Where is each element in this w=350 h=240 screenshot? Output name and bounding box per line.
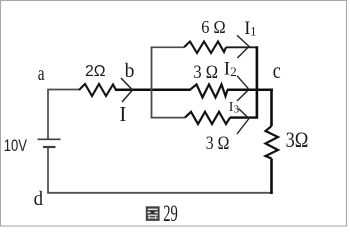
svg-text:a: a [38, 61, 45, 85]
svg-text:d: d [34, 188, 43, 210]
resistor R 2ohm [79, 84, 116, 96]
caption glyph tu (figure) [146, 206, 160, 221]
resistor R 3ohm right vertical [266, 126, 279, 159]
svg-text:I: I [224, 58, 230, 79]
svg-text:2: 2 [230, 64, 237, 79]
svg-text:29: 29 [163, 201, 178, 227]
wire: main middle b to resistor 3ohm [115, 89, 191, 92]
arrow current I2 [237, 76, 249, 101]
svg-text:3: 3 [234, 103, 240, 115]
wire: top branch lead right [226, 46, 257, 48]
wire: battery to node d [47, 147, 49, 193]
wire: bottom branch lead right [230, 116, 258, 118]
svg-text:c: c [273, 58, 281, 83]
arrow current I1 [237, 35, 249, 58]
battery V1 long plate [38, 138, 61, 140]
arrow current I [121, 78, 133, 102]
resistor R 3ohm bottom [185, 112, 230, 124]
wire: resistor down to bottom wire [270, 159, 273, 195]
svg-text:1: 1 [250, 24, 256, 38]
svg-text:2Ω: 2Ω [85, 63, 106, 80]
svg-text:3 Ω: 3 Ω [193, 63, 218, 83]
svg-text:I: I [119, 102, 126, 126]
left bus of parallel branches [151, 46, 153, 118]
arrow current I3 [237, 109, 249, 135]
wire: left vertical a to battery [47, 90, 49, 140]
wire: top branch lead left [151, 46, 184, 48]
wire: middle resistor to c (thick) [227, 89, 273, 92]
inner right bus [256, 46, 259, 118]
svg-text:3Ω: 3Ω [286, 127, 309, 152]
svg-text:6 Ω: 6 Ω [201, 17, 225, 37]
svg-text:3 Ω: 3 Ω [206, 133, 230, 154]
resistor R 6ohm [184, 42, 226, 54]
wire: a to 2ohm resistor [47, 89, 79, 91]
wire: c down to 3ohm vertical resistor [270, 90, 273, 126]
battery V1 short plate [43, 146, 56, 148]
svg-text:b: b [125, 60, 135, 82]
wire: bottom branch lead left [151, 117, 185, 119]
wire: bottom d to right [47, 192, 272, 194]
resistor R 3ohm middle [190, 84, 228, 97]
svg-text:10V: 10V [4, 137, 27, 155]
